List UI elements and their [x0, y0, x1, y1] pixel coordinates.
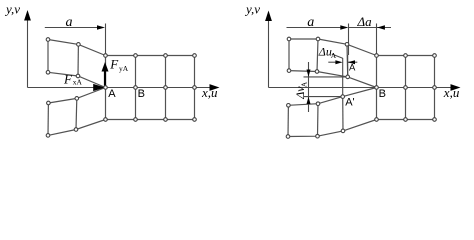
svg-text:a: a	[307, 15, 314, 30]
svg-text:A: A	[299, 81, 308, 87]
svg-text:F: F	[109, 56, 119, 71]
svg-text:a: a	[66, 15, 73, 30]
svg-text:x,u: x,u	[443, 85, 460, 100]
svg-text:A: A	[331, 51, 337, 60]
svg-text:A: A	[108, 88, 116, 100]
svg-text:y,v: y,v	[4, 1, 20, 16]
svg-text:B: B	[138, 88, 145, 100]
svg-text:A: A	[349, 62, 356, 73]
svg-text:Δu: Δu	[318, 45, 332, 59]
svg-text:x,u: x,u	[201, 85, 218, 100]
svg-text:yA: yA	[119, 64, 129, 73]
svg-text:A': A'	[345, 96, 354, 108]
svg-text:F: F	[63, 72, 73, 87]
svg-text:xA: xA	[73, 78, 83, 87]
svg-text:y,v: y,v	[244, 1, 260, 16]
svg-text:Δa: Δa	[357, 14, 373, 29]
svg-text:B: B	[379, 88, 386, 100]
